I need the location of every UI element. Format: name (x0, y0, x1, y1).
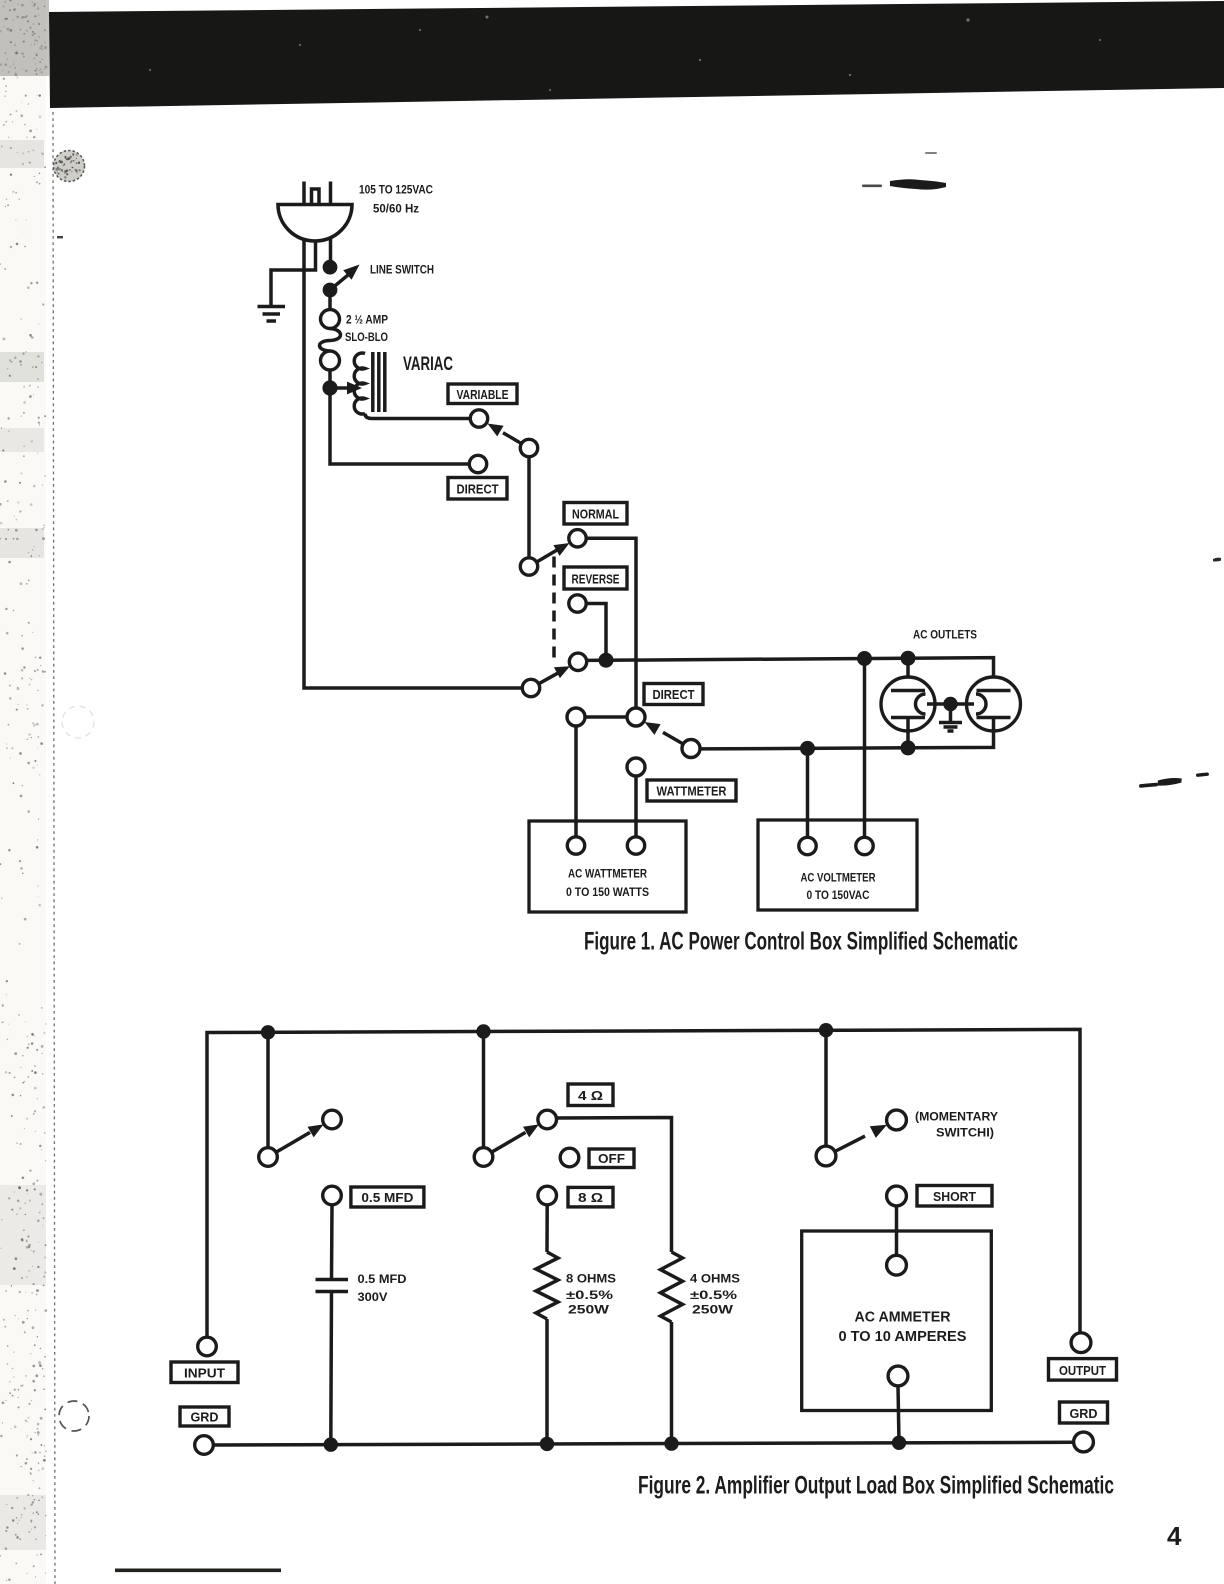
outlet ground symbol (939, 704, 962, 731)
label box GRD left (180, 1407, 229, 1426)
wire S2 to S3 (527, 457, 531, 558)
wire fuse to node (328, 370, 332, 389)
svg-text:INPUT: INPUT (184, 1365, 225, 1380)
hot wire plug to line switch (329, 238, 333, 261)
label box GRD right (1060, 1402, 1108, 1423)
input bus top rail (207, 1029, 1080, 1337)
label box REVERSE (564, 567, 627, 589)
terminal WATTMETER (627, 758, 645, 776)
svg-text:AC OUTLETS: AC OUTLETS (913, 628, 977, 642)
label box INPUT (171, 1362, 238, 1383)
label box WATTMETER (647, 780, 736, 801)
svg-text:OFF: OFF (598, 1151, 625, 1166)
output rail top (587, 658, 994, 678)
terminal VARIABLE (470, 410, 487, 427)
capacitor C1 0.5 MFD 300V (316, 1280, 349, 1292)
svg-text:VARIABLE: VARIABLE (457, 387, 509, 402)
fuse F1 2.5A slo-blo (320, 310, 341, 371)
node A reverse join (599, 653, 614, 668)
wire 4 ohm branch (557, 1118, 672, 1253)
terminal REVERSE (569, 595, 586, 612)
scan header bar (49, 1, 1224, 108)
ink smudge top right (862, 152, 946, 190)
node below fuse (322, 380, 337, 395)
svg-text:105 TO 125VAC: 105 TO 125VAC (359, 183, 433, 197)
label box OUTPUT (1049, 1359, 1117, 1381)
svg-text:DIRECT: DIRECT (653, 687, 695, 702)
line switch S1 (323, 260, 360, 298)
terminal reversing common (569, 653, 586, 670)
bottom left mark (115, 1569, 281, 1573)
label box 0.5 MFD (351, 1187, 424, 1207)
svg-text:SLO-BLO: SLO-BLO (345, 330, 388, 344)
svg-text:±0.5%: ±0.5% (690, 1288, 737, 1302)
arrow into variac (330, 382, 362, 395)
svg-text:Figure 2. Amplifier Output Loa: Figure 2. Amplifier Output Load Box Simp… (638, 1472, 1114, 1500)
svg-text:4 OHMS: 4 OHMS (690, 1272, 740, 1286)
resistor R1 8 ohms (536, 1252, 558, 1319)
lower rail to outlets (700, 730, 994, 749)
svg-text:DIRECT: DIRECT (457, 481, 499, 496)
node I momentary switch tap (819, 1023, 833, 1037)
label box 8 ohm (568, 1187, 613, 1207)
node K 8 ohm bottom (540, 1437, 554, 1451)
terminal 4 ohm contact (538, 1110, 557, 1129)
switch S7 load select (474, 1032, 539, 1167)
node F outlet ground (943, 697, 957, 711)
svg-text:LINE SWITCH: LINE SWITCH (370, 263, 434, 277)
binder hole middle (faint) (62, 706, 94, 738)
svg-text:OUTPUT: OUTPUT (1059, 1363, 1106, 1378)
binder hole bottom (59, 1401, 89, 1431)
wire contact to wattmeter terminal (574, 726, 578, 837)
wire 8 ohm contact to resistor (545, 1205, 549, 1252)
svg-text:VARIAC: VARIAC (403, 354, 453, 375)
terminal GRD left (195, 1436, 214, 1455)
switch S4 arm reversing lower (522, 666, 570, 697)
svg-text:0.5 MFD: 0.5 MFD (361, 1190, 413, 1205)
node C outlet top (901, 651, 916, 666)
wire fuse node to DIRECT terminal (330, 388, 469, 464)
svg-text:GRD: GRD (1070, 1406, 1098, 1421)
switch S8 momentary (816, 1030, 906, 1166)
wire wattmeter terminal down (634, 776, 638, 837)
wire node D to voltmeter (806, 748, 810, 837)
svg-text:8 Ω: 8 Ω (578, 1190, 603, 1205)
node M ammeter bottom (892, 1436, 906, 1450)
terminal SHORT (887, 1186, 907, 1206)
AC outlet J2 (951, 677, 1021, 731)
svg-text:(MOMENTARY: (MOMENTARY (915, 1110, 999, 1124)
svg-text:GRD: GRD (191, 1409, 219, 1424)
svg-text:300V: 300V (358, 1290, 389, 1304)
svg-text:0 TO 150VAC: 0 TO 150VAC (807, 888, 870, 902)
svg-text:SHORT: SHORT (933, 1189, 976, 1204)
wire ammeter to ground bus (898, 1386, 899, 1443)
binder hole top (54, 151, 85, 182)
wire variac to VARIABLE terminal (365, 414, 470, 419)
svg-text:±0.5%: ±0.5% (566, 1288, 613, 1302)
node G cap switch tap (261, 1025, 275, 1039)
wire top rail to voltmeter right (863, 659, 867, 838)
neutral wire from plug down-left side to reversing switch (304, 239, 522, 688)
terminal OFF contact (560, 1148, 579, 1167)
svg-text:250W: 250W (568, 1303, 609, 1317)
ink smudge right edge (1213, 558, 1221, 562)
meter M3 AC ammeter (802, 1231, 992, 1411)
svg-text:0.5 MFD: 0.5 MFD (358, 1272, 407, 1286)
ink smudge lower right (1139, 772, 1209, 788)
meter M1 AC wattmeter (529, 821, 686, 912)
svg-text:8 OHMS: 8 OHMS (566, 1272, 616, 1286)
label box NORMAL (564, 503, 627, 525)
switch S3 arm normal/reverse (520, 543, 569, 575)
svg-text:2 ½ AMP: 2 ½ AMP (346, 313, 388, 327)
wire capacitor to ground bus (329, 1292, 333, 1445)
svg-text:250W: 250W (692, 1303, 733, 1317)
node B voltmeter tap (857, 651, 872, 666)
capacitor C1 contact (323, 1186, 342, 1205)
meter M2 AC voltmeter (758, 820, 917, 910)
node D voltmeter left (800, 741, 815, 756)
speck near plug (57, 236, 63, 238)
node E outlet bottom (901, 740, 916, 755)
node H load switch tap (476, 1024, 490, 1038)
wire R2 to ground bus (670, 1322, 674, 1444)
svg-text:0 TO 150 WATTS: 0 TO 150 WATTS (566, 885, 649, 899)
svg-text:Figure 1. AC Power Control Box: Figure 1. AC Power Control Box Simplifie… (584, 928, 1018, 956)
label box DIRECT (meter switch) (644, 684, 703, 705)
svg-text:4 Ω: 4 Ω (578, 1088, 603, 1103)
svg-text:AC VOLTMETER: AC VOLTMETER (801, 871, 876, 885)
svg-text:NORMAL: NORMAL (572, 506, 619, 521)
label box DIRECT (variac) (448, 478, 507, 500)
wire R1 to ground bus (545, 1319, 549, 1444)
svg-text:AC WATTMETER: AC WATTMETER (568, 867, 647, 881)
label box VARIABLE (448, 384, 517, 404)
wire contact to capacitor (330, 1205, 334, 1279)
svg-text:WATTMETER: WATTMETER (657, 784, 727, 799)
resistor R2 4 ohms (661, 1252, 683, 1322)
chassis ground symbol (258, 307, 286, 322)
page edge dotted line (53, 112, 55, 1584)
node L 4 ohm bottom (664, 1436, 678, 1450)
scan left edge strip (0, 0, 49, 1584)
wire SHORT to ammeter (895, 1206, 899, 1255)
terminal NORMAL (569, 530, 586, 547)
wire REVERSE to output rail node (586, 604, 606, 660)
ground wire from plug (271, 241, 316, 305)
gang link dashed (552, 557, 556, 662)
label box OFF (589, 1149, 634, 1168)
terminal GRD right (1074, 1432, 1094, 1452)
terminal OUTPUT (1071, 1333, 1091, 1353)
terminal INPUT (198, 1337, 217, 1356)
label box SHORT (917, 1186, 992, 1207)
svg-text:AC AMMETER: AC AMMETER (855, 1309, 951, 1326)
AC plug P1 (278, 182, 352, 242)
node J cap bottom (324, 1437, 338, 1451)
svg-text:4: 4 (1167, 1521, 1182, 1551)
terminal DIRECT (variac) (469, 455, 486, 472)
label box 4 ohm (568, 1084, 613, 1106)
switch S2 arm variable/direct (488, 424, 538, 457)
svg-text:REVERSE: REVERSE (572, 571, 620, 586)
terminal 8 ohm contact (538, 1186, 557, 1205)
svg-text:0 TO 10 AMPERES: 0 TO 10 AMPERES (839, 1328, 967, 1345)
variac T1 (354, 352, 385, 414)
AC outlet J1 (881, 658, 951, 748)
wire NORMAL to direct/wattmeter switch (586, 538, 636, 708)
wire line switch to fuse (328, 297, 332, 311)
switch S5 direct/wattmeter (567, 708, 700, 758)
ground bus bottom rail (213, 1442, 1073, 1445)
svg-text:50/60 Hz: 50/60 Hz (373, 202, 419, 216)
svg-text:SWITCHI): SWITCHI) (936, 1126, 994, 1140)
switch S6 capacitor select (259, 1032, 342, 1166)
